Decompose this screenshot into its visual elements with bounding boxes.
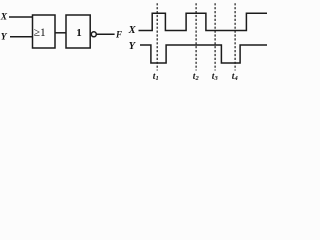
svg-text:F: F xyxy=(115,30,122,40)
svg-text:1: 1 xyxy=(76,27,82,39)
svg-text:≥1: ≥1 xyxy=(34,25,46,39)
svg-text:X: X xyxy=(128,25,137,36)
svg-text:X: X xyxy=(0,13,8,23)
